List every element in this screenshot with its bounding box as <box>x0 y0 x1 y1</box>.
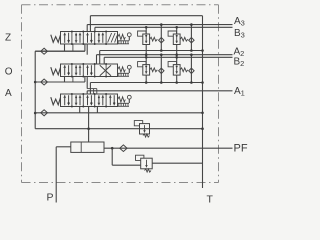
svg-text:Z: Z <box>5 33 11 44</box>
svg-text:B3: B3 <box>234 28 245 40</box>
svg-text:A1: A1 <box>234 86 245 98</box>
svg-text:PF: PF <box>234 143 248 155</box>
svg-text:O: O <box>5 67 13 78</box>
svg-text:A: A <box>5 88 12 99</box>
svg-text:P: P <box>47 192 54 204</box>
svg-text:B2: B2 <box>234 56 245 68</box>
svg-text:A3: A3 <box>234 16 245 28</box>
svg-text:T: T <box>207 194 214 206</box>
